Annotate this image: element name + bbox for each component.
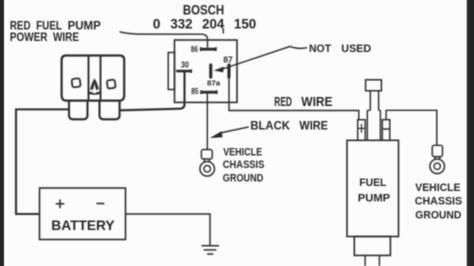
wire: fuel pump - to right ring terminal xyxy=(386,110,437,145)
battery + symbol xyxy=(56,200,65,209)
fuel pump neck (wider tube) xyxy=(367,110,380,140)
left black border bar xyxy=(0,0,4,266)
fuse F1 left window xyxy=(72,78,81,87)
fuse F1 inner right divider xyxy=(100,56,102,100)
label: RED FUEL PUMP POWER WIRE xyxy=(10,18,101,43)
wire: relay pin 85 down to ring terminal (black wire) xyxy=(206,94,208,150)
svg-text:86: 86 xyxy=(191,44,198,54)
svg-text:FUEL: FUEL xyxy=(359,177,386,189)
svg-text:BATTERY: BATTERY xyxy=(51,217,115,233)
svg-text:204: 204 xyxy=(202,17,224,33)
svg-text:VEHICLE: VEHICLE xyxy=(415,182,460,194)
svg-text:WIRE: WIRE xyxy=(299,118,328,132)
svg-text:30: 30 xyxy=(181,60,189,69)
relay pin 85 terminal xyxy=(200,90,217,94)
fuel pump inlet tube xyxy=(365,255,379,266)
svg-text:USED: USED xyxy=(341,43,371,55)
arrowhead pointing at black wire xyxy=(210,131,223,138)
relay pin 87a terminal (vertical blade, not used) xyxy=(209,64,212,79)
ring terminal (right, vehicle chassis ground) barrel xyxy=(432,145,442,156)
svg-text:332: 332 xyxy=(170,17,192,33)
fuel pump - terminal xyxy=(382,120,390,141)
wire: battery + up left side to fuse xyxy=(16,109,69,214)
svg-text:VEHICLE: VEHICLE xyxy=(223,147,262,159)
svg-text:PUMP: PUMP xyxy=(358,192,391,204)
fuel pump body xyxy=(347,140,399,236)
svg-text:GROUND: GROUND xyxy=(223,173,263,185)
svg-text:150: 150 xyxy=(234,17,256,33)
ring terminal (left, vehicle chassis ground) barrel xyxy=(201,150,212,160)
ring terminal (left) ring xyxy=(200,162,215,177)
ground symbol (chassis ground) xyxy=(202,246,220,254)
svg-text:CHASSIS: CHASSIS xyxy=(415,196,462,208)
fuel pump bottom flange xyxy=(354,237,390,256)
label: VEHICLE CHASSIS GROUND (left) xyxy=(223,147,265,185)
relay pin 87 terminal (vertical blade) xyxy=(227,64,230,79)
svg-text:85: 85 xyxy=(191,87,199,96)
svg-text:87: 87 xyxy=(223,56,233,65)
relay K1 body (Bosch 0 332 204 150) xyxy=(175,40,238,102)
battery - symbol xyxy=(97,203,105,205)
svg-text:WIRE: WIRE xyxy=(53,30,79,44)
fuel pump M1: outlet cap xyxy=(366,80,382,91)
fuse F1 element (lambda shape) xyxy=(89,78,100,94)
leader from BLACK WIRE to wire xyxy=(220,127,249,133)
label: VEHICLE CHASSIS GROUND (right) xyxy=(415,182,462,222)
fuse F1 right window xyxy=(107,80,116,89)
relay K1 mounting tab xyxy=(168,53,174,90)
fuse F1 body (ATO blade fuse) xyxy=(62,56,125,101)
label: RED WIRE xyxy=(274,95,332,109)
ring terminal (right) ring xyxy=(430,159,445,174)
wire: battery - to chassis ground xyxy=(126,214,211,246)
fuse F1 right blade xyxy=(100,101,120,120)
wire: relay pin 87 to fuel pump + (red wire) xyxy=(229,79,359,120)
arrowhead pointing at pin 87a xyxy=(214,67,224,73)
wire: fuse to relay pin 30 xyxy=(120,72,185,110)
fuel pump outlet tube xyxy=(370,91,378,111)
svg-text:POWER: POWER xyxy=(10,30,48,44)
svg-text:CHASSIS: CHASSIS xyxy=(223,159,265,171)
svg-text:BLACK: BLACK xyxy=(250,118,290,132)
svg-text:GROUND: GROUND xyxy=(415,210,461,222)
svg-text:RED: RED xyxy=(274,95,292,109)
wire: power wire from label to relay pin 86 xyxy=(120,32,208,48)
label: BLACK WIRE xyxy=(250,118,328,132)
svg-text:NOT: NOT xyxy=(309,43,331,55)
fuse F1 left blade xyxy=(69,101,88,120)
fuel pump + terminal xyxy=(358,120,366,141)
ring terminal (right) neck xyxy=(435,157,441,160)
svg-text:WIRE: WIRE xyxy=(301,95,332,109)
svg-text:87a: 87a xyxy=(207,78,221,87)
label: NOT USED xyxy=(309,43,371,55)
relay pin 30 terminal xyxy=(176,69,192,73)
svg-text:0: 0 xyxy=(153,17,161,33)
fuse F1 inner left divider xyxy=(88,56,90,100)
relay pin 86 terminal xyxy=(200,47,217,51)
leader tick from part number to relay K1 xyxy=(222,29,224,34)
ring terminal (left) neck xyxy=(204,159,210,162)
right black border bar xyxy=(467,0,474,266)
battery BT1 box xyxy=(40,188,126,240)
fuel pump label xyxy=(358,177,391,204)
label: 0 332 204 150 (relay part number) xyxy=(153,17,257,33)
leader from NOT USED to pin 87a xyxy=(223,46,308,69)
svg-text:BOSCH: BOSCH xyxy=(183,2,224,17)
